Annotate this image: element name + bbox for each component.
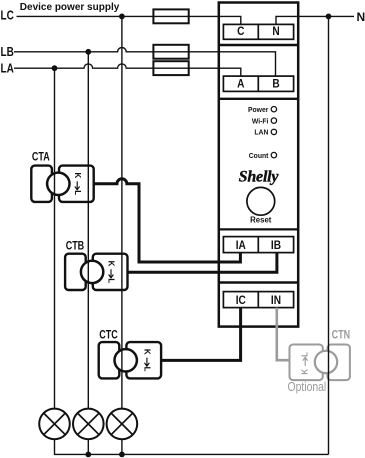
svg-text:CTA: CTA <box>32 150 50 164</box>
svg-text:C: C <box>237 25 244 38</box>
wire LC horizontal <box>17 16 241 24</box>
terminal block IA IB <box>223 237 293 253</box>
CT transformer CTC body <box>99 342 161 378</box>
node LB junction <box>85 49 91 55</box>
CT CTN clamp circle <box>315 351 337 373</box>
svg-text:N: N <box>357 10 365 24</box>
svg-text:IN: IN <box>271 294 281 307</box>
svg-text:Device power supply: Device power supply <box>20 2 120 13</box>
svg-text:IA: IA <box>236 239 246 252</box>
wire CTC secondary to IC (thick) <box>161 308 241 361</box>
wire phase B vertical through CTB to lamp <box>87 52 89 409</box>
lamp load B <box>73 409 104 440</box>
terminal block C N <box>223 24 293 39</box>
device divider 4 <box>219 281 298 284</box>
CTA K-L arrow <box>75 181 80 190</box>
fuse F2 (LB) <box>153 45 188 59</box>
svg-text:IB: IB <box>271 239 281 252</box>
CT transformer CTN body (gray, optional) <box>290 345 350 381</box>
CT transformer CTA body <box>31 166 93 202</box>
wire phase A vertical through CTA to lamp <box>54 68 56 409</box>
CTB K-L arrow <box>109 269 114 278</box>
Reset button <box>247 187 275 215</box>
svg-text:CTB: CTB <box>66 239 85 253</box>
wire IN to CTN (gray) <box>277 308 290 361</box>
svg-text:Power: Power <box>248 106 269 114</box>
device outer box <box>219 3 298 327</box>
node lamp C junction <box>119 452 125 458</box>
node LA junction <box>52 65 58 71</box>
svg-text:Count: Count <box>249 152 269 160</box>
fuse F3 (LA) <box>153 61 188 75</box>
svg-text:IC: IC <box>236 294 246 307</box>
node LC junction <box>119 14 125 20</box>
wire LA horizontal with hops <box>14 64 241 76</box>
device divider 3 <box>219 228 298 230</box>
svg-text:LAN: LAN <box>254 128 268 136</box>
CT CTA clamp circle <box>47 173 69 195</box>
wire LB horizontal with hop <box>14 48 276 77</box>
wire phase C vertical through CTC to lamp <box>121 16 123 408</box>
lamp load A <box>39 409 70 440</box>
svg-text:N: N <box>272 25 279 38</box>
device divider 1 <box>219 44 298 47</box>
wire N vertical <box>328 16 330 454</box>
wire CTA secondary to IA (thick, hop over LC vertical) <box>94 179 241 262</box>
node N junction <box>326 14 332 20</box>
wire CTB secondary to IB (thick) <box>128 253 277 273</box>
wire lamp returns to N bottom <box>55 439 329 454</box>
svg-text:B: B <box>272 78 279 91</box>
terminal block A B <box>223 76 293 91</box>
CTN K-L arrow <box>303 357 308 366</box>
device divider 2 <box>219 98 298 100</box>
node lamp B junction <box>85 452 91 458</box>
svg-text:LB: LB <box>1 46 14 59</box>
svg-text:CTC: CTC <box>99 328 118 342</box>
lamp load C <box>107 409 138 440</box>
svg-text:LC: LC <box>1 9 14 22</box>
svg-text:LA: LA <box>1 63 14 76</box>
fuse F1 (LC) <box>153 9 188 23</box>
svg-text:CTN: CTN <box>332 328 350 342</box>
terminal block IC IN <box>223 292 293 308</box>
wire N from terminal to right <box>276 16 354 24</box>
CT CTB clamp circle <box>81 261 103 283</box>
svg-text:A: A <box>237 78 244 91</box>
CT transformer CTB body <box>65 254 127 290</box>
CTC K-L arrow <box>145 358 150 367</box>
CT CTC clamp circle <box>115 349 137 371</box>
svg-text:Optional: Optional <box>288 380 327 394</box>
svg-text:Wi-Fi: Wi-Fi <box>252 117 269 125</box>
svg-text:Shelly: Shelly <box>239 169 280 186</box>
svg-text:Reset: Reset <box>250 215 272 224</box>
